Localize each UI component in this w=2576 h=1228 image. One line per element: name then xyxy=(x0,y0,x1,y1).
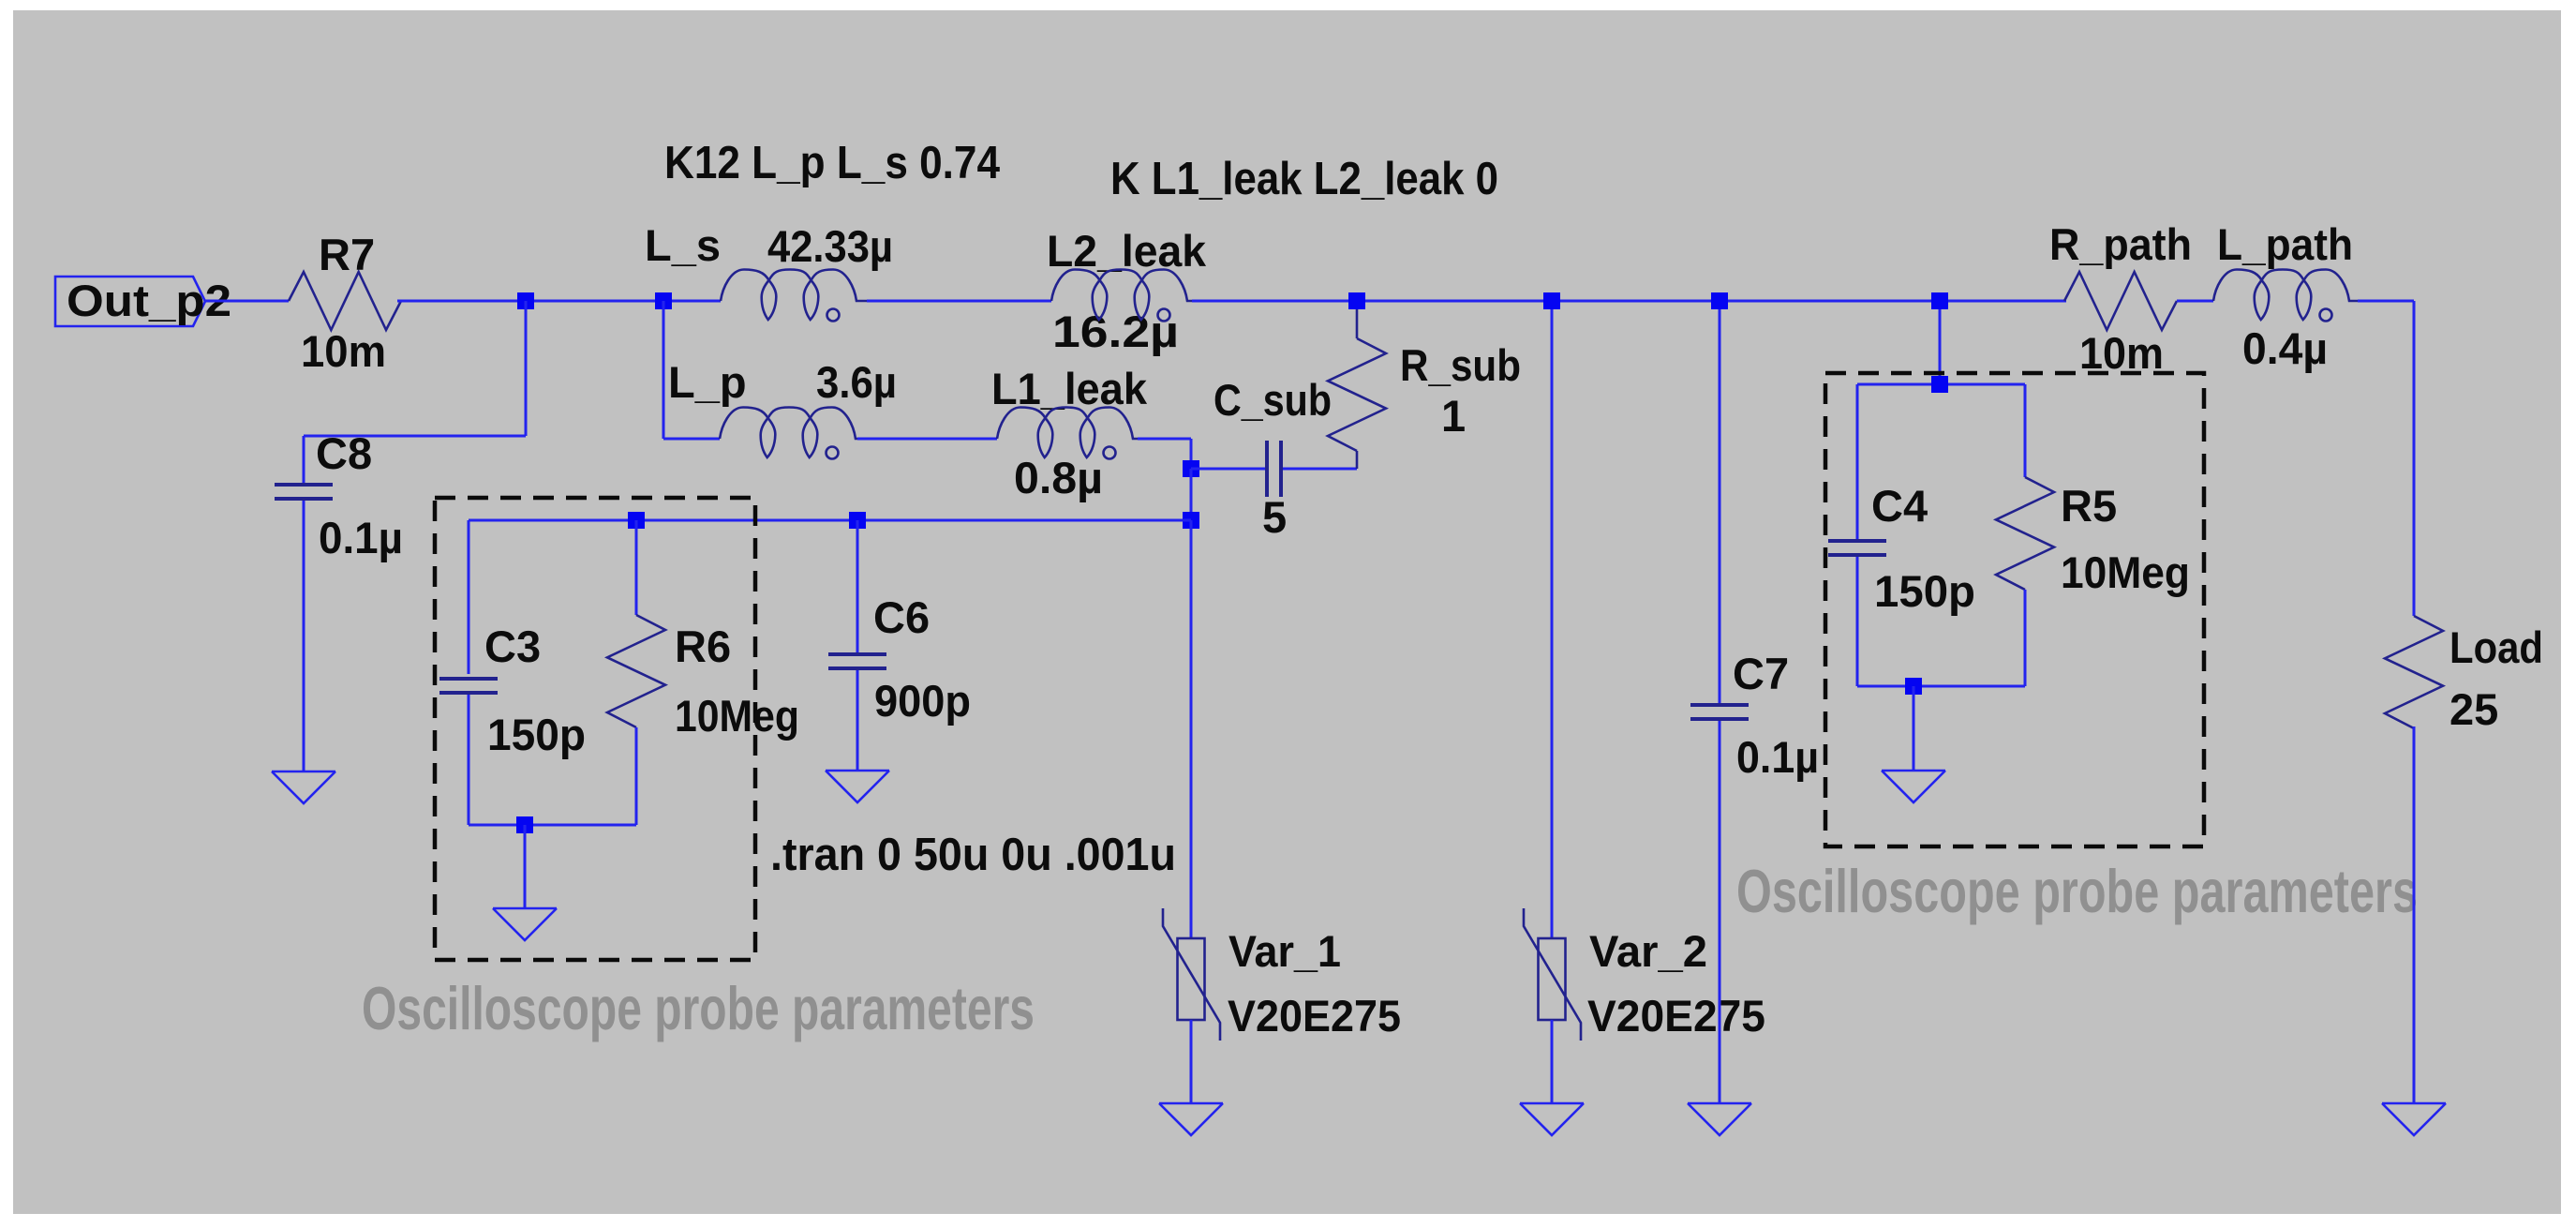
node probe2 ground junction xyxy=(1905,678,1922,695)
wire down to Var_1 xyxy=(1190,520,1193,938)
wire L_s to L2_leak xyxy=(867,300,1051,303)
svg-text:10Meg: 10Meg xyxy=(675,691,799,741)
svg-text:3.6µ: 3.6µ xyxy=(816,357,897,407)
inductor L_s xyxy=(721,270,867,322)
capacitor C7 xyxy=(1690,705,1749,719)
wire to C_sub xyxy=(1191,468,1267,471)
wire down to L_p row xyxy=(663,301,665,439)
wire down to C_sub node xyxy=(1190,439,1193,469)
node Var_2 top xyxy=(1543,292,1560,309)
resistor R5 xyxy=(1996,477,2054,590)
wire R_sub top lead xyxy=(1356,301,1359,338)
ground C7 xyxy=(1688,1103,1751,1135)
resistor R7 xyxy=(289,272,401,330)
ground Var_1 xyxy=(1159,1103,1223,1135)
svg-text:K L1_leak L2_leak 0: K L1_leak L2_leak 0 xyxy=(1110,154,1498,204)
ground C8 xyxy=(272,771,335,803)
svg-text:1: 1 xyxy=(1441,391,1466,441)
svg-text:5: 5 xyxy=(1262,492,1287,542)
node R6 top xyxy=(628,512,645,529)
node R_sub top xyxy=(1348,292,1365,309)
svg-text:Load: Load xyxy=(2449,622,2543,672)
wire C4 bottom lead xyxy=(1856,557,1859,686)
wire probe2 bottom xyxy=(1857,685,2025,688)
svg-text:R_path: R_path xyxy=(2049,219,2192,269)
capacitor C6 xyxy=(828,654,886,668)
resistor Load xyxy=(2385,616,2443,728)
svg-text:R7: R7 xyxy=(319,230,375,279)
wire R6 top lead xyxy=(635,520,638,615)
wire R_path to L_path xyxy=(2177,300,2213,303)
ground probe1 xyxy=(493,908,557,940)
port flag Out_p2 xyxy=(55,277,205,326)
svg-text:C_sub: C_sub xyxy=(1214,375,1332,425)
svg-text:V20E275: V20E275 xyxy=(1228,991,1401,1041)
node probe2 inner xyxy=(1931,376,1948,393)
wire down from node xyxy=(525,301,528,436)
svg-text:V20E275: V20E275 xyxy=(1587,991,1765,1041)
wire probe1 bottom xyxy=(469,824,636,827)
wire C8 to ground xyxy=(303,501,305,771)
wire probe2 top xyxy=(1857,383,2025,386)
inductor L_p xyxy=(720,408,857,459)
wire C4 top lead xyxy=(1856,384,1859,543)
inductor L_path xyxy=(2213,270,2358,322)
svg-text:C7: C7 xyxy=(1733,649,1789,698)
node junction L_p branch xyxy=(655,292,672,309)
svg-text:16.2µ: 16.2µ xyxy=(1052,307,1179,356)
node probe row right end xyxy=(1183,512,1199,529)
svg-text:C3: C3 xyxy=(484,621,541,671)
node junction C8 branch xyxy=(517,292,534,309)
wire C_sub node down xyxy=(1190,469,1193,520)
node C_sub junction xyxy=(1183,460,1199,477)
wire R7 to L_s xyxy=(397,300,721,303)
svg-text:R6: R6 xyxy=(675,621,731,671)
wire down to Load xyxy=(2413,301,2416,616)
svg-text:150p: 150p xyxy=(1874,566,1975,616)
wire C3 bottom lead xyxy=(468,695,470,825)
svg-text:42.33µ: 42.33µ xyxy=(767,221,893,271)
varistor Var_1 xyxy=(1163,908,1220,1041)
svg-text:K12 L_p L_s 0.74: K12 L_p L_s 0.74 xyxy=(664,138,1000,188)
wire to L_p xyxy=(663,438,720,441)
svg-text:0.1µ: 0.1µ xyxy=(1736,732,1819,782)
svg-text:Oscilloscope probe parameters: Oscilloscope probe parameters xyxy=(362,974,1035,1042)
svg-text:C4: C4 xyxy=(1871,481,1928,531)
svg-text:10Meg: 10Meg xyxy=(2061,547,2190,597)
node C7 top xyxy=(1711,292,1728,309)
svg-text:10m: 10m xyxy=(2079,328,2164,378)
wire C_sub to R_sub xyxy=(1283,468,1357,471)
wire Out_p2 to R7 xyxy=(205,300,289,303)
svg-text:Var_1: Var_1 xyxy=(1228,926,1341,976)
node C6 top xyxy=(849,512,866,529)
wire to ground probe2 xyxy=(1913,686,1915,771)
wire down to Var_2 xyxy=(1551,301,1554,938)
wire L1_leak to corner xyxy=(1138,438,1191,441)
svg-text:Var_2: Var_2 xyxy=(1589,926,1707,976)
resistor R_sub xyxy=(1328,338,1386,451)
wire R5 bottom lead xyxy=(2024,590,2027,686)
capacitor C8 xyxy=(275,485,333,499)
capacitor C4 xyxy=(1828,541,1886,555)
svg-text:0.8µ: 0.8µ xyxy=(1014,453,1103,502)
inductor L1_leak xyxy=(997,408,1138,459)
ground probe2 xyxy=(1882,771,1945,802)
wire down to C7 xyxy=(1719,301,1721,707)
wire Load to ground xyxy=(2413,726,2416,1103)
resistor R6 xyxy=(607,615,665,727)
wire L_p to L1_leak xyxy=(857,438,997,441)
ground Load xyxy=(2382,1103,2446,1135)
wire C6 top lead xyxy=(856,520,859,656)
wire Var_2 to ground xyxy=(1551,1020,1554,1103)
node probe1 ground junction xyxy=(516,816,533,833)
svg-text:C6: C6 xyxy=(873,592,930,642)
capacitor C_sub xyxy=(1267,441,1281,497)
svg-text:0.1µ: 0.1µ xyxy=(319,513,403,562)
wire R6 bottom lead xyxy=(635,727,638,825)
wire R5 top lead xyxy=(2024,384,2027,477)
wire L_path to corner xyxy=(2358,300,2414,303)
node probe2 top xyxy=(1931,292,1948,309)
svg-text:R_sub: R_sub xyxy=(1400,340,1521,390)
varistor Var_2 xyxy=(1524,908,1581,1041)
svg-text:900p: 900p xyxy=(874,676,971,726)
svg-text:L_p: L_p xyxy=(668,357,747,407)
wire Var_1 to ground xyxy=(1190,1020,1193,1103)
wire down to probe2 xyxy=(1939,301,1942,384)
svg-text:C8: C8 xyxy=(316,428,372,478)
wire R_sub bottom lead xyxy=(1356,451,1359,469)
wire C6 bottom lead xyxy=(856,670,859,771)
wire C3 top lead xyxy=(468,520,470,674)
svg-text:L_path: L_path xyxy=(2217,219,2353,269)
wire to ground probe1 xyxy=(524,825,527,908)
svg-text:L_s: L_s xyxy=(645,220,721,270)
wire C7 to ground xyxy=(1719,721,1721,1103)
wire C8 top lead xyxy=(303,436,305,487)
svg-text:L2_leak: L2_leak xyxy=(1047,226,1207,276)
wire L2_leak to R_path xyxy=(1192,300,2066,303)
svg-text:150p: 150p xyxy=(487,710,586,759)
svg-text:R5: R5 xyxy=(2061,481,2117,531)
svg-text:0.4µ: 0.4µ xyxy=(2242,323,2328,373)
resistor R_path xyxy=(2064,272,2177,330)
ground Var_2 xyxy=(1520,1103,1584,1135)
wire probe row horizontal xyxy=(469,519,1191,522)
capacitor C3 xyxy=(439,679,498,693)
wire jog to C8 xyxy=(304,435,526,438)
inductor L2_leak xyxy=(1051,270,1192,322)
ground C6 xyxy=(826,771,889,802)
svg-text:10m: 10m xyxy=(301,326,386,376)
dashed box oscilloscope probe 2 xyxy=(1825,373,2204,846)
svg-text:Oscilloscope probe parameters: Oscilloscope probe parameters xyxy=(1736,857,2418,925)
svg-text:L1_leak: L1_leak xyxy=(991,364,1148,413)
dashed box oscilloscope probe 1 xyxy=(435,498,755,960)
svg-text:.tran 0 50u 0u .001u: .tran 0 50u 0u .001u xyxy=(770,830,1176,880)
svg-text:25: 25 xyxy=(2449,684,2498,734)
